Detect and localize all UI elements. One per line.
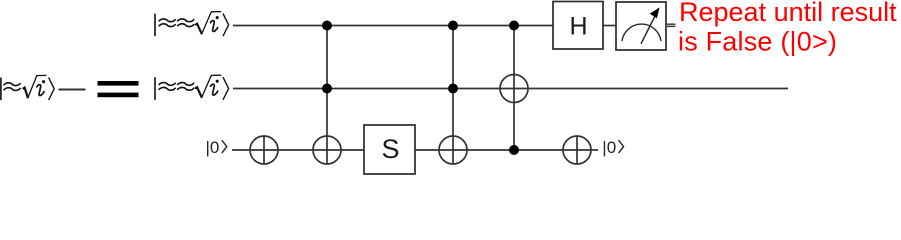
Toffoli 3 control dot (bottom) — [509, 145, 519, 155]
meter needle arrowhead — [650, 7, 660, 18]
measurement meter box — [616, 2, 666, 50]
svg-text:is False (|0>): is False (|0>) — [678, 26, 837, 56]
italic i of middle label — [211, 80, 219, 95]
equivalence symbol == — [98, 81, 139, 86]
italic i of top label — [211, 16, 219, 31]
Toffoli 3 target ⊕ (middle) — [500, 75, 528, 103]
svg-text:H: H — [569, 13, 587, 41]
Toffoli 2 vertical wire — [452, 26, 454, 165]
wire bottom qubit — [232, 149, 598, 151]
meter needle — [641, 15, 656, 44]
Toffoli 3 vertical wire — [513, 26, 515, 151]
ket label |≈≈√i⟩ (top qubit) — [155, 12, 229, 37]
Toffoli 3 control dot (top) — [509, 21, 519, 31]
italic i of left label — [37, 80, 45, 95]
X gate target ⊕ (bottom wire, last) — [563, 136, 591, 164]
classical wire stub (double line) — [667, 23, 676, 25]
X gate target ⊕ (bottom wire, first) — [250, 136, 278, 164]
svg-text:S: S — [381, 134, 399, 164]
ket label |≈√i⟩ (left input state) — [1, 75, 54, 100]
wire middle qubit — [233, 88, 788, 90]
svg-text:|0: |0 — [206, 138, 220, 157]
meter arc — [622, 24, 661, 41]
svg-text:|0: |0 — [602, 138, 616, 157]
Toffoli 2 target ⊕ (bottom) — [439, 136, 467, 164]
gate S box — [364, 125, 415, 174]
Toffoli 1 control dot (middle) — [322, 84, 332, 94]
ket label |≈≈√i⟩ (middle qubit) — [155, 75, 229, 100]
wire stub left of equivalence — [59, 89, 86, 91]
wire top qubit — [233, 25, 553, 27]
Toffoli 1 vertical wire — [326, 26, 328, 165]
wire top between H and meter — [603, 25, 616, 27]
svg-text:Repeat until result: Repeat until result — [679, 0, 897, 27]
Toffoli 1 control dot (top) — [322, 21, 332, 31]
Toffoli 1 target ⊕ (bottom) — [313, 136, 341, 164]
gate H box — [553, 2, 603, 50]
Toffoli 2 control dot (top) — [448, 21, 458, 31]
Toffoli 2 control dot (middle) — [448, 84, 458, 94]
